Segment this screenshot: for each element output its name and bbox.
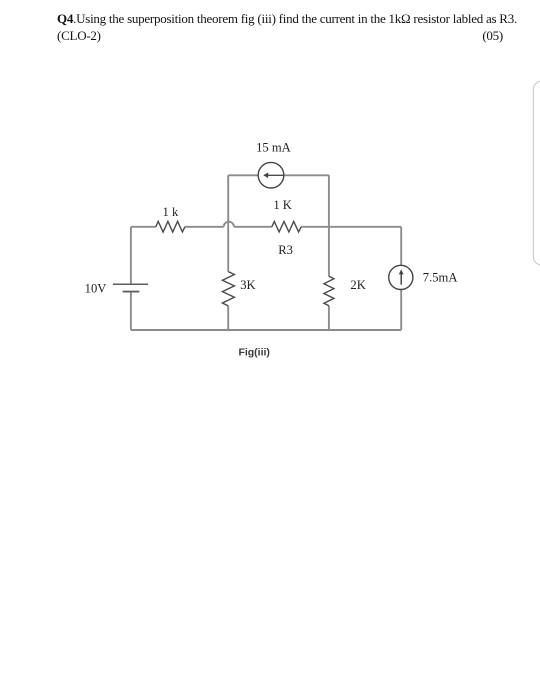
current source I1 15mA circle	[258, 162, 284, 188]
resistor 3K zigzag	[222, 272, 234, 306]
wire hop over middle vertical	[224, 222, 234, 227]
svg-text:7.5mA: 7.5mA	[423, 270, 458, 284]
question text line 2 left	[57, 29, 101, 42]
wire right-middle vertical below 2K	[328, 306, 330, 330]
current source I2 arrowhead	[399, 269, 404, 274]
wire far-right vertical above 7.5mA source	[400, 227, 402, 266]
svg-text:15 mA: 15 mA	[256, 140, 291, 154]
resistor 1k zigzag	[156, 221, 185, 232]
current source I2 7.5mA circle	[389, 265, 413, 289]
current source I1 arrow line	[267, 174, 284, 176]
wire left vertical above battery	[130, 227, 132, 284]
battery V1 short plate	[123, 291, 140, 293]
question text line 1	[57, 12, 517, 25]
svg-text:1 k: 1 k	[163, 205, 179, 219]
svg-text:Fig(iii): Fig(iii)	[238, 346, 270, 358]
wire top branch right of 15mA source	[284, 174, 329, 176]
wire right-middle vertical from top branch to 2K	[328, 175, 330, 276]
wire middle vertical below 3K	[227, 306, 229, 330]
wire top-left horizontal	[131, 226, 156, 228]
battery V1 long plate	[113, 283, 148, 285]
resistor R3 1K zigzag	[272, 221, 301, 232]
current source I1 arrowhead	[263, 173, 268, 179]
wire bottom horizontal	[131, 329, 401, 331]
wire far-right vertical below 7.5mA source	[400, 289, 402, 330]
svg-text:10V: 10V	[85, 282, 107, 296]
resistor 2K zigzag	[324, 276, 334, 305]
wire middle vertical from top branch to 3K	[227, 175, 229, 271]
current source I2 arrow line	[400, 272, 402, 284]
wire between hop and R3	[234, 226, 272, 228]
svg-text:2K: 2K	[350, 278, 365, 292]
scrollbar card edge	[533, 81, 540, 265]
svg-text:3K: 3K	[240, 278, 255, 292]
wire top branch left of 15mA source	[228, 174, 258, 176]
wire R3 right to top-right corner	[301, 226, 401, 228]
svg-text:R3: R3	[278, 243, 293, 257]
svg-text:1 K: 1 K	[273, 198, 292, 212]
question text line 2 right	[482, 29, 503, 42]
wire between 1k and hop	[185, 226, 224, 228]
wire left vertical below battery	[130, 292, 132, 330]
